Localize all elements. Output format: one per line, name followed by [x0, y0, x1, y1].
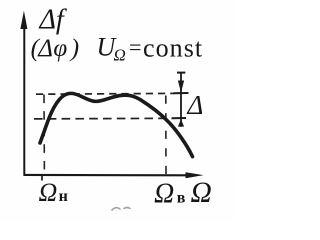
svg-text:=: =: [129, 35, 141, 60]
svg-text:н: н: [59, 188, 68, 205]
tick at top of dimension arrow: [177, 72, 185, 74]
y-axis: [20, 11, 27, 176]
vertical dashed line at lower cutoff: [43, 95, 45, 175]
down arrowhead onto top level: [178, 81, 184, 93]
dimension arrow stem: [180, 72, 182, 127]
bottom dashed level line: [34, 117, 170, 120]
svg-text:Δ: Δ: [187, 90, 204, 120]
up arrowhead onto bottom level: [178, 119, 184, 126]
svg-text:): ): [69, 35, 79, 62]
svg-text:const: const: [143, 34, 203, 63]
svg-text:Ω: Ω: [39, 178, 58, 207]
svg-text:в: в: [177, 190, 186, 207]
vertical dashed line at upper cutoff: [165, 96, 167, 175]
svg-text:Δf: Δf: [39, 5, 67, 36]
svg-text:Ω: Ω: [114, 46, 126, 65]
top level tick extension: [174, 92, 189, 94]
bottom level tick extension: [172, 117, 187, 119]
faint cropped caption mark: [112, 208, 130, 211]
response curve: [40, 93, 193, 156]
tick below axis at lower cutoff: [41, 175, 43, 181]
svg-text:Ω: Ω: [154, 179, 174, 210]
top dashed level line: [36, 92, 174, 95]
svg-text:Δφ: Δφ: [37, 35, 68, 62]
svg-text:Ω: Ω: [191, 177, 212, 209]
x-axis: [24, 172, 204, 178]
